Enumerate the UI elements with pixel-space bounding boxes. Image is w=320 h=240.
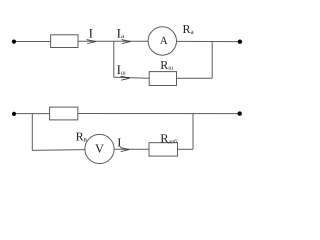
svg-text:I: I <box>117 135 121 149</box>
svg-text:A: A <box>160 35 168 47</box>
svg-text:V: V <box>95 142 104 156</box>
svg-text:I: I <box>89 25 93 40</box>
